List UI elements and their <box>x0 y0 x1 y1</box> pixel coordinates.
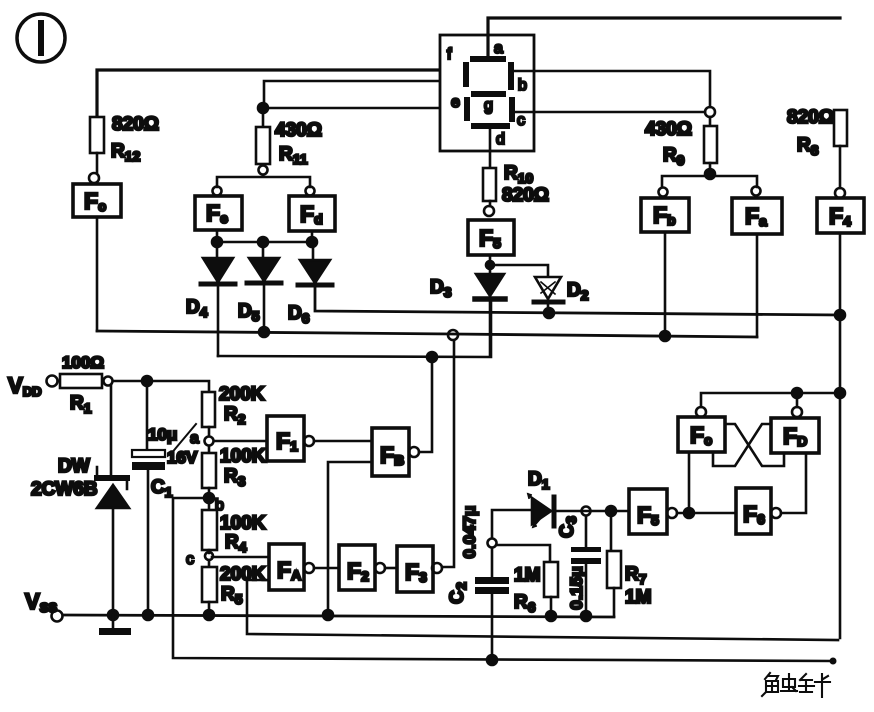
output bubble of F2 <box>375 563 385 573</box>
junction D5 top <box>258 237 268 247</box>
diode D1 <box>528 469 554 527</box>
segment c <box>509 97 525 129</box>
wire D4 cathode down to bus C <box>217 286 220 356</box>
svg-text:a: a <box>190 430 199 447</box>
resistor R9 <box>645 117 717 168</box>
wire cross coupling FD to Fc <box>713 424 771 466</box>
VDD terminal <box>8 373 58 399</box>
input bubble of FD flipflop <box>792 407 802 417</box>
gate Fc <box>73 184 121 217</box>
svg-text:2: 2 <box>453 582 469 590</box>
terminal bubble right of R1 <box>104 377 113 386</box>
gate Fa <box>732 198 782 234</box>
resistor R3 <box>202 446 266 489</box>
wire R7 to VSS end <box>613 588 616 616</box>
input bubble of Fb <box>659 188 668 197</box>
VSS terminal <box>25 589 63 622</box>
svg-text:430Ω: 430Ω <box>275 120 322 141</box>
output bubble of F6 <box>771 508 781 518</box>
gate F5 top <box>468 220 514 255</box>
terminal bubble C2 top <box>488 539 497 548</box>
wire F2 to F3 <box>385 567 397 570</box>
svg-text:D2: D2 <box>567 280 589 303</box>
wire F6 output to FD <box>781 453 806 513</box>
svg-text:200K: 200K <box>220 564 266 585</box>
VDD rail wire <box>113 381 209 392</box>
svg-text:16V: 16V <box>167 448 198 467</box>
label 10u/16V <box>148 424 198 467</box>
wire node to R11 <box>262 112 265 127</box>
resistor R2 <box>202 384 265 427</box>
terminal bubble on bus B <box>448 330 458 340</box>
capacitor C1 <box>132 386 173 615</box>
resistor R1 <box>58 353 104 416</box>
svg-text:2CW6B: 2CW6B <box>31 479 98 500</box>
wire R11 top node to g and e segments <box>264 81 483 108</box>
wire F5 output to D3 and D2 <box>490 255 548 277</box>
resistor R11 <box>256 120 322 167</box>
wire R8 to F4 <box>839 146 842 188</box>
figure number 1 badge <box>17 14 65 62</box>
resistor R4 <box>202 510 266 555</box>
junction Fe output <box>212 237 222 247</box>
wire D1 to F5 <box>557 510 629 513</box>
wire Fc output down to bus B <box>96 217 99 331</box>
gate F2 <box>339 545 375 590</box>
svg-text:DW: DW <box>58 456 90 477</box>
input bubble of Fe <box>213 187 222 196</box>
wire R6 to VSS <box>546 597 556 621</box>
junction bus A right end <box>835 310 845 320</box>
wire F3 output up to bus B bubble <box>442 341 454 567</box>
wire F4 output down right border <box>839 233 842 638</box>
svg-text:R11: R11 <box>279 144 308 167</box>
diode D3 <box>430 274 505 300</box>
input bubble of F5 top <box>484 201 494 216</box>
junction Fc feedback <box>684 452 694 518</box>
gate Fe <box>195 196 242 230</box>
label touch pin chinese <box>762 673 830 697</box>
wire segment d to R10 <box>489 129 492 168</box>
svg-text:820Ω: 820Ω <box>502 185 549 206</box>
svg-text:100K: 100K <box>220 446 266 467</box>
junction below R9 <box>705 169 715 179</box>
svg-text:820Ω: 820Ω <box>112 114 159 135</box>
wire node c to FA <box>212 556 269 559</box>
svg-text:C1: C1 <box>151 477 173 500</box>
junction FD input <box>792 388 802 398</box>
svg-text:1M: 1M <box>625 587 651 608</box>
segment d <box>471 123 510 148</box>
wire flipflop top rail <box>701 393 840 407</box>
svg-text:R12: R12 <box>111 141 141 164</box>
segment f <box>447 46 469 87</box>
svg-text:R1: R1 <box>70 393 92 416</box>
ground symbol <box>99 615 131 635</box>
svg-text:a: a <box>494 40 503 57</box>
input bubble of Fc <box>89 173 99 183</box>
output bubble of F3 <box>432 563 442 573</box>
svg-text:10μ: 10μ <box>148 425 177 444</box>
label 0.047u rotated <box>460 506 479 559</box>
svg-text:e: e <box>451 94 460 111</box>
svg-text:0.047μ: 0.047μ <box>460 506 479 559</box>
gate FA <box>269 544 304 590</box>
svg-text:d: d <box>496 131 505 148</box>
wire F5 to F6 <box>677 512 736 515</box>
svg-text:D1: D1 <box>528 469 550 492</box>
junction D5 on bus B <box>259 285 269 337</box>
svg-text:R8: R8 <box>797 135 819 158</box>
resistor R12 <box>90 114 159 164</box>
wire D3 cathode down to bus C end <box>489 302 492 356</box>
node b <box>204 488 224 514</box>
wire Fb output to bus B <box>660 232 670 341</box>
wire R12 to Fc <box>96 153 99 173</box>
svg-text:R9: R9 <box>663 145 685 168</box>
node c bubble <box>186 550 213 568</box>
wire Fe/Fd outputs to diode row <box>217 230 313 260</box>
svg-text:D4: D4 <box>186 297 208 320</box>
svg-text:f: f <box>447 46 452 63</box>
wire R5 to VSS <box>208 602 211 615</box>
junction FB on bus C <box>427 352 437 362</box>
wire D6 cathode to bus A <box>315 287 840 315</box>
svg-text:R3: R3 <box>224 466 246 489</box>
svg-text:C: C <box>557 524 578 538</box>
svg-text:R5: R5 <box>221 584 243 607</box>
output bubble of F5 bottom <box>667 508 677 518</box>
svg-text:b: b <box>518 77 527 94</box>
wire node b to bottom bus <box>173 498 833 661</box>
svg-text:g: g <box>484 97 493 114</box>
diode D5 <box>238 258 281 324</box>
gate F6 <box>736 488 771 534</box>
capacitor C2 <box>475 577 509 660</box>
svg-text:D3: D3 <box>430 277 452 300</box>
wire zener branch <box>110 386 113 477</box>
junction Fd output <box>307 237 317 247</box>
junction zener on VSS <box>108 610 118 620</box>
wire cross coupling Fc to FD <box>725 424 784 466</box>
label 0.15u rotated <box>567 566 586 610</box>
wire segment b to R9 node <box>514 71 710 107</box>
input bubble of Fd <box>306 187 315 196</box>
wire node a to F1 <box>214 440 267 443</box>
svg-text:R7: R7 <box>625 564 647 587</box>
wire FA lower input loop <box>247 580 838 640</box>
wire FB second input to VSS <box>328 462 372 615</box>
svg-text:C: C <box>447 590 468 604</box>
output bubble of F1 <box>304 436 314 446</box>
wire F1 to FB <box>314 440 372 443</box>
output bubble of FB <box>409 447 419 457</box>
junction C2 bottom on b bus <box>487 655 497 665</box>
gate F5 bottom <box>629 489 667 534</box>
junction R7 top <box>606 506 616 516</box>
diode D4 <box>186 258 235 320</box>
svg-text:VDD: VDD <box>8 373 41 399</box>
gate FB <box>372 428 409 476</box>
wire D1 anode branch <box>492 510 532 538</box>
svg-text:3: 3 <box>563 516 579 524</box>
segment b <box>508 62 527 94</box>
svg-text:820Ω: 820Ω <box>787 107 834 128</box>
svg-text:430Ω: 430Ω <box>645 119 692 140</box>
svg-text:100Ω: 100Ω <box>62 353 104 372</box>
node a bubble <box>190 427 214 453</box>
wire top-left supply to f segment <box>97 70 462 118</box>
diode D2 <box>534 277 589 303</box>
svg-text:100K: 100K <box>220 513 266 534</box>
resistor R8 <box>787 107 847 158</box>
gate FD flipflop <box>771 418 819 453</box>
zener diode DW 2CW6B <box>31 456 129 508</box>
label C3 rotated <box>557 516 579 538</box>
wire D2 cathode to bus A <box>544 302 554 318</box>
svg-text:0.15μ: 0.15μ <box>567 566 586 610</box>
bus B wire (Fc/D5/F3/Fb/Fa common) <box>97 331 757 337</box>
gate Fc flipflop <box>678 417 725 452</box>
junction C3 bottom on VSS <box>581 611 591 621</box>
svg-text:R4: R4 <box>225 532 247 555</box>
svg-text:1M: 1M <box>514 565 540 586</box>
VSS rail wire <box>63 615 614 617</box>
gate Fb <box>641 198 689 232</box>
junction FB input on VSS <box>323 610 333 620</box>
svg-text:D6: D6 <box>288 303 310 326</box>
seven segment display outline <box>440 35 534 151</box>
junction C1 top <box>142 376 152 386</box>
resistor R10 <box>483 163 549 206</box>
resistor R7 <box>607 516 651 608</box>
gate F3 <box>397 546 433 592</box>
node R9 top bubble <box>705 107 715 117</box>
svg-text:R6: R6 <box>514 592 536 615</box>
segment g <box>471 91 506 114</box>
resistor R6 <box>514 562 558 615</box>
output bubble of FA <box>304 563 314 573</box>
wire FA to F2 <box>314 567 339 570</box>
bus C wire <box>218 302 491 357</box>
svg-text:R10: R10 <box>504 163 534 186</box>
gate F4 <box>817 198 864 233</box>
junction below F5 <box>486 261 494 269</box>
junction right border <box>835 388 845 398</box>
diode D6 <box>288 260 332 326</box>
wire zener anode to VSS rail <box>112 508 115 615</box>
segment a <box>470 40 506 62</box>
input bubble of F4 <box>835 188 845 198</box>
resistor R5 <box>202 564 266 607</box>
gate Fd <box>289 196 335 231</box>
svg-text:R2: R2 <box>224 404 246 427</box>
segment e <box>451 94 470 121</box>
svg-text:c: c <box>517 112 525 129</box>
capacitor C3 <box>571 516 601 616</box>
node R11 top <box>258 103 268 113</box>
wire bubble to C2 <box>491 548 494 577</box>
label C2 rotated <box>447 582 469 604</box>
wire Fa output to bus B end <box>756 234 759 337</box>
junction C1 on VSS <box>143 610 153 620</box>
input bubble of Fc flipflop <box>696 407 706 417</box>
wire R6 tap <box>497 545 550 562</box>
wire segment c to R9 node <box>515 111 705 114</box>
wire R11 to Fe and Fd inputs <box>217 175 310 187</box>
wire FB output up to bus C <box>419 357 432 452</box>
gate F1 <box>267 416 304 461</box>
terminal bubble C3 top <box>582 507 591 516</box>
svg-text:c: c <box>186 551 194 568</box>
end blob of b bus <box>830 658 837 665</box>
wire segment a feed from top rail <box>488 18 840 56</box>
input bubble of Fa <box>752 187 761 196</box>
svg-text:D5: D5 <box>238 301 260 324</box>
terminal bubble below R11 <box>259 166 268 175</box>
wire R9 to Fb and Fa inputs <box>662 163 757 187</box>
junction R5 on VSS <box>204 610 214 620</box>
svg-text:200K: 200K <box>219 384 265 405</box>
